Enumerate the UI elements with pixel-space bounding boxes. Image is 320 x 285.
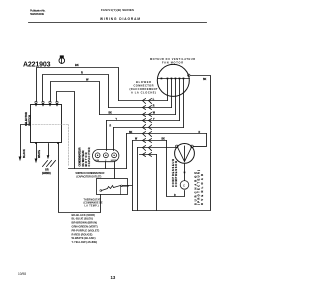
capacitor bottom C wire <box>105 162 107 169</box>
wire A: selector T1 to connector row 1 <box>37 68 119 102</box>
selector terminal 4 <box>56 101 58 103</box>
compressor terminal S <box>176 145 179 148</box>
svg-text:R: R <box>81 71 83 75</box>
chassis ground symbol <box>43 161 56 167</box>
svg-text:BL-BLUE (BLEU): BL-BLUE (BLEU) <box>72 217 94 221</box>
svg-text:BK: BK <box>75 63 79 67</box>
wire C: selector T3 to connector row 3 <box>51 82 100 115</box>
row 7 left drop to thermostat right <box>129 141 133 211</box>
run capacitor body <box>93 150 119 162</box>
ground wire <box>48 144 50 156</box>
right rail wire <box>133 76 211 211</box>
svg-text:BLOWER: BLOWER <box>136 80 151 84</box>
compressor to overload wire <box>184 163 186 180</box>
capacitor bus wire <box>69 168 127 170</box>
fan motor circle <box>157 64 189 96</box>
svg-text:CONNECTOR: CONNECTOR <box>134 84 154 88</box>
svg-text:THERMOSTAT: THERMOSTAT <box>84 198 102 201</box>
thermostat right wire <box>123 185 129 187</box>
compressor label (vertical) <box>171 159 178 187</box>
svg-text:13: 13 <box>111 275 116 280</box>
fan motor right terminal <box>188 74 190 76</box>
fan motor lead 1 <box>167 79 169 101</box>
footer date <box>18 272 116 280</box>
svg-text:CAPACITOR: CAPACITOR <box>87 147 91 166</box>
blower connector label <box>130 80 158 94</box>
header rule <box>29 22 207 24</box>
capacitor label (vertical columns) <box>78 147 92 166</box>
selector bottom terminal L <box>35 142 37 144</box>
svg-text:FAN MOTOR: FAN MOTOR <box>162 61 183 64</box>
svg-text:FAN: FAN <box>95 159 99 162</box>
selector terminal 3 <box>49 101 51 103</box>
selector bottom terminal R <box>57 142 59 144</box>
svg-text:WHITE: WHITE <box>38 150 41 158</box>
row 5 left drop to capacitor HERM terminal <box>113 128 115 151</box>
selector terminal 2 <box>42 101 44 103</box>
connector row 8 <box>138 147 176 149</box>
connector row 1 <box>119 100 168 102</box>
svg-text:HERM: HERM <box>111 160 117 162</box>
thermostat switch <box>100 190 102 192</box>
line cord wire bottom <box>36 144 38 159</box>
svg-text:GRN-GREEN (VERT): GRN-GREEN (VERT) <box>72 225 98 229</box>
capacitor FAN terminal <box>95 153 100 158</box>
connector row 3 <box>100 114 176 116</box>
svg-text:(GRND): (GRND) <box>42 172 51 175</box>
svg-text:10/98: 10/98 <box>18 272 26 276</box>
revision circle marker <box>59 58 65 64</box>
row 6 right to compressor R terminal <box>194 134 207 147</box>
capacitor outlet label <box>75 172 104 178</box>
svg-text:(RACCORDEMENT: (RACCORDEMENT <box>130 87 158 91</box>
svg-text:Y-YELLOW (JAUNE): Y-YELLOW (JAUNE) <box>72 240 98 244</box>
wire: selector bottom R to thermostat <box>59 144 101 213</box>
overload label (vertical) <box>194 170 204 205</box>
thermostat label <box>84 198 103 207</box>
svg-text:(COMMANDE DE: (COMMANDE DE <box>84 201 103 204</box>
selector switch label (vertical) <box>24 112 31 126</box>
svg-text:LA TEMP.): LA TEMP.) <box>85 205 99 208</box>
wire D: selector T4 to capacitor bus <box>57 92 75 169</box>
connector row 6 <box>127 133 207 135</box>
wire B: selector T2 to connector row 2 <box>43 75 109 108</box>
row 4 left drop to capacitor C terminal <box>106 121 108 151</box>
capacitor HERM terminal <box>112 153 117 158</box>
row 6 left drop to capacitor bus <box>126 134 128 169</box>
header publication number text <box>30 8 46 16</box>
compressor motor circle <box>175 144 195 164</box>
selector switch S1 box <box>31 105 62 143</box>
svg-text:R-RED (ROUGE): R-RED (ROUGE) <box>72 232 93 236</box>
line cord wire left <box>21 125 31 157</box>
fan motor lead 2 <box>171 79 173 108</box>
fan motor lead 4 <box>179 79 181 121</box>
fan motor label <box>150 58 195 64</box>
svg-text:(CAPACITOR OUTLET): (CAPACITOR OUTLET) <box>76 175 101 178</box>
svg-text:BR-BROWN (BRUN): BR-BROWN (BRUN) <box>72 221 98 225</box>
svg-text:COMPRESSOR: COMPRESSOR <box>174 161 178 187</box>
svg-text:BK-BLACK (NOIR): BK-BLACK (NOIR) <box>72 213 96 217</box>
schematic number A221903 <box>23 61 51 68</box>
capacitor terminal labels <box>95 159 116 162</box>
capacitor C terminal <box>104 153 109 158</box>
connector row 9 <box>140 154 157 156</box>
overload protector <box>180 181 189 190</box>
row 8 left drop to bottom rail <box>137 148 139 211</box>
row 9 right drop to bottom rail <box>156 155 158 211</box>
svg-text:5995264039: 5995264039 <box>30 12 44 16</box>
svg-text:BLACK: BLACK <box>23 149 26 158</box>
header model number text <box>100 8 140 21</box>
compressor windings <box>178 146 192 162</box>
connector row 2 <box>109 107 172 109</box>
svg-text:BK: BK <box>203 79 207 81</box>
connector row 7 <box>133 140 167 142</box>
connector row 5 <box>114 127 184 129</box>
connector row 4 <box>107 120 180 122</box>
fan motor lead 5 <box>183 79 185 128</box>
compressor terminal R <box>191 145 194 148</box>
selector terminal 1 <box>35 101 37 103</box>
wire labels top <box>75 63 207 197</box>
wire label BK (left cord, vertical) <box>23 149 41 158</box>
svg-text:A LA CLOCHE): A LA CLOCHE) <box>131 91 156 95</box>
svg-text:FAS/V1(Y)(B) SERIES: FAS/V1(Y)(B) SERIES <box>101 8 134 12</box>
wire color legend <box>72 213 100 244</box>
svg-text:PR-PURPLE (VIOLET): PR-PURPLE (VIOLET) <box>72 228 100 232</box>
dashed console boundary <box>33 125 69 167</box>
svg-text:c: c <box>183 183 185 188</box>
row 7 right to overload loop <box>167 141 185 197</box>
svg-text:W-WHITE (BLANC): W-WHITE (BLANC) <box>72 236 96 240</box>
svg-text:WIRING DIAGRAM: WIRING DIAGRAM <box>100 17 140 21</box>
thermostat box <box>97 179 128 195</box>
fan motor winding chord <box>158 78 190 80</box>
capacitor HERM to thermostat wire <box>114 162 116 179</box>
fan motor lead 3 <box>175 79 177 115</box>
